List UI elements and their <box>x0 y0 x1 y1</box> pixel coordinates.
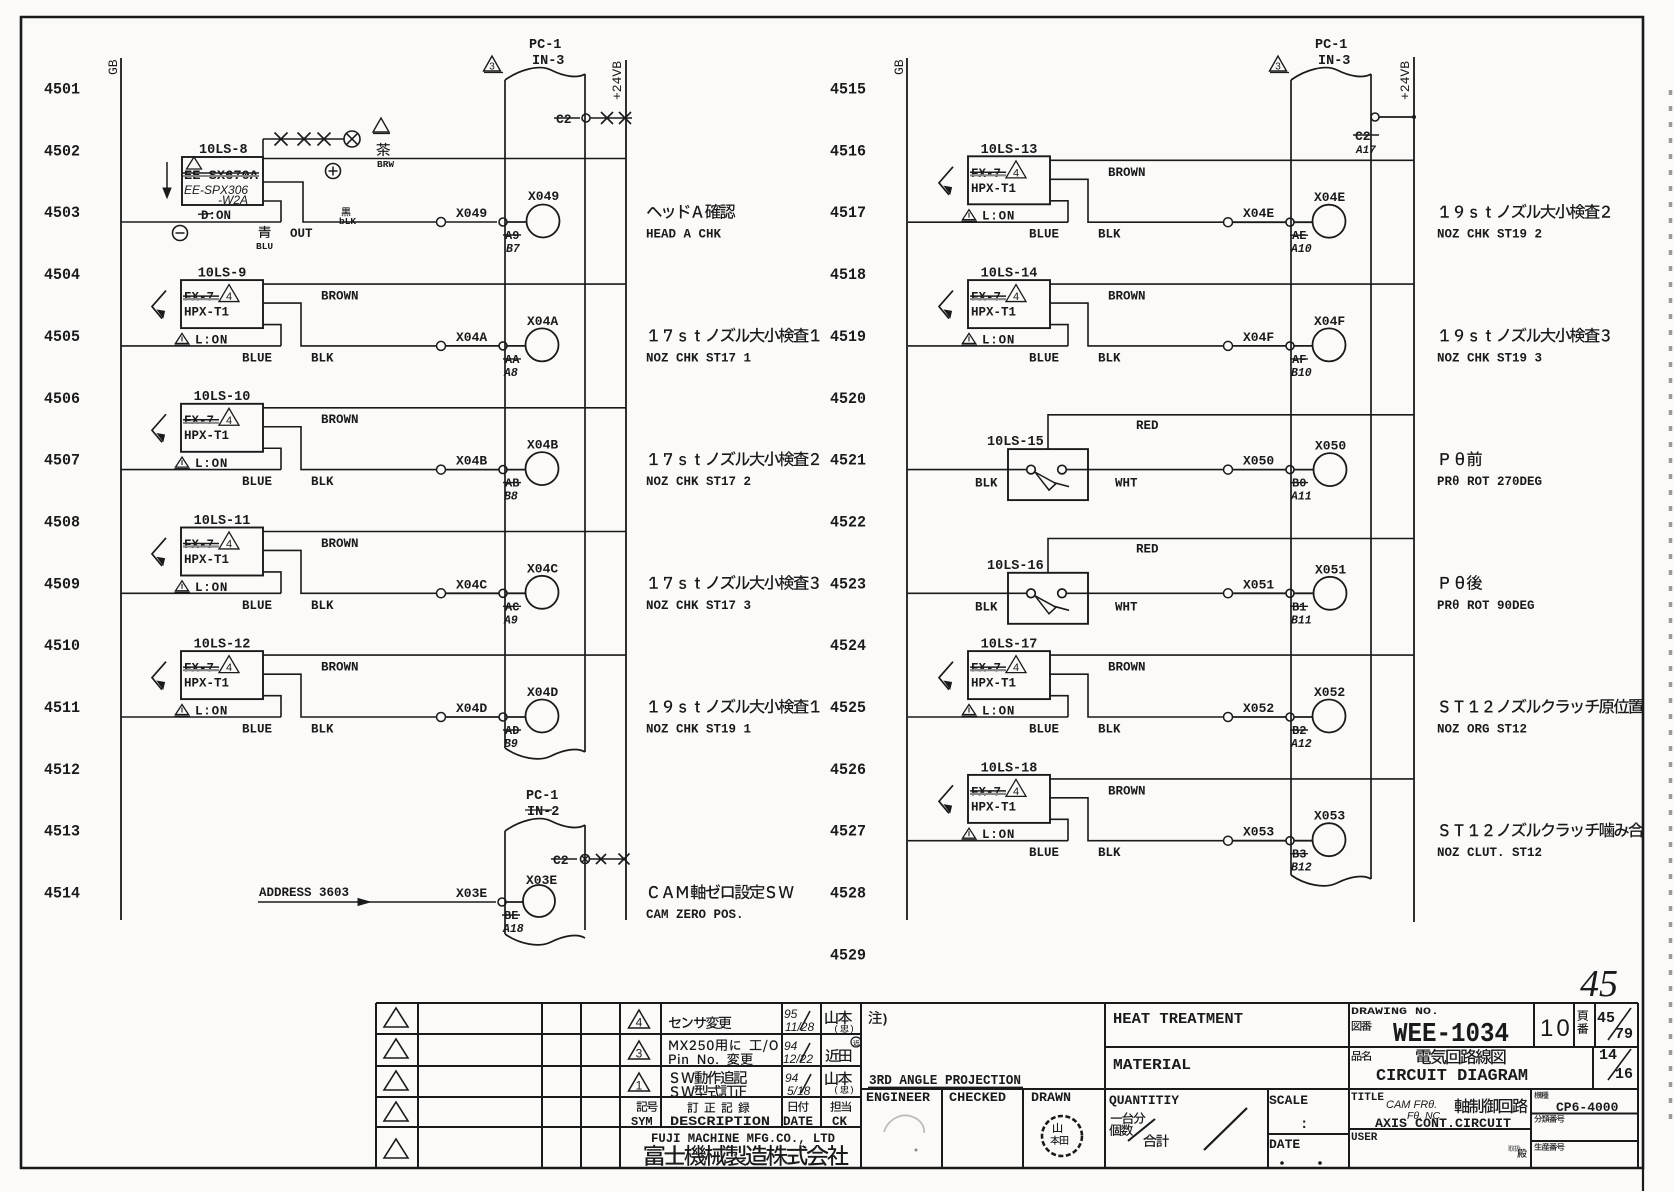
svg-text:X052: X052 <box>1243 701 1274 716</box>
10LS-12 black signal wire to X04D <box>263 674 437 736</box>
svg-text:BLK: BLK <box>1098 351 1121 365</box>
drawing number box WEE-1034 <box>1351 1006 1509 1050</box>
svg-text:X050: X050 <box>1315 439 1346 454</box>
10LS-10 black signal wire to X04B <box>263 427 437 489</box>
limit switch 10LS-16 <box>987 559 1088 624</box>
svg-text:4529: 4529 <box>830 946 866 964</box>
svg-text:14: 14 <box>1599 1047 1617 1064</box>
svg-text:4513: 4513 <box>44 823 80 841</box>
node X04C open terminal <box>437 589 446 598</box>
10LS-8 blue wire to GB bus <box>121 201 281 252</box>
company name FUJI MACHINE MFG CO LTD <box>644 1131 848 1166</box>
svg-text:94: 94 <box>784 1039 798 1053</box>
svg-text:PC-1: PC-1 <box>1315 38 1347 53</box>
svg-text:B1: B1 <box>1292 600 1306 614</box>
svg-text:X051: X051 <box>1315 562 1346 577</box>
node X052 open terminal <box>1224 713 1233 722</box>
svg-text:X053: X053 <box>1314 809 1345 824</box>
connector pin AB/B8 <box>499 466 526 504</box>
label NOZ ORG ST12 <box>1437 699 1644 737</box>
svg-text:OUT: OUT <box>290 227 313 241</box>
scale and date boxes <box>1269 1093 1322 1165</box>
10LS-8 minus terminal symbol <box>173 226 188 241</box>
svg-text:5/18: 5/18 <box>787 1084 811 1098</box>
note mark <box>868 1011 888 1027</box>
svg-text:WHT: WHT <box>1115 600 1138 614</box>
svg-text:B10: B10 <box>1291 367 1312 380</box>
svg-text:TITLE: TITLE <box>1351 1092 1384 1104</box>
10LS-8 crossed-out old wire <box>263 131 360 157</box>
terminal circle X03E <box>523 873 557 917</box>
svg-text:4502: 4502 <box>44 142 80 160</box>
connector pin AE/A10 <box>1286 218 1313 256</box>
svg-text:USER: USER <box>1351 1132 1378 1144</box>
10LS-14 blue wire to GB bus <box>908 325 1068 366</box>
wire X053 to connector pin <box>1233 825 1287 841</box>
product name box CIRCUIT DIAGRAM <box>1352 1049 1528 1085</box>
limit switch sensor 10LS-10 (HPX-T1) <box>152 390 263 471</box>
label NOZ CHK ST17 1 <box>646 327 819 365</box>
wire X04F to connector pin <box>1233 330 1287 346</box>
+24VB power line (L) <box>610 60 626 920</box>
label NOZ CHK ST19 1 <box>646 699 819 737</box>
svg-text:B11: B11 <box>1291 614 1312 627</box>
svg-text:CAM ZERO POS.: CAM ZERO POS. <box>646 908 744 922</box>
node X04B open terminal <box>437 465 446 474</box>
svg-text:HEAT TREATMENT: HEAT TREATMENT <box>1113 1011 1243 1028</box>
svg-text:4505: 4505 <box>44 328 80 346</box>
10LS-18 blue wire to GB bus <box>908 819 1068 860</box>
svg-text:SYM: SYM <box>631 1115 653 1129</box>
svg-text:4525: 4525 <box>830 699 866 717</box>
svg-text:FX-7: FX-7 <box>184 538 214 552</box>
svg-text:BLUE: BLUE <box>1029 351 1059 365</box>
svg-text:A8: A8 <box>503 367 518 380</box>
svg-text:X053: X053 <box>1243 825 1274 840</box>
svg-text:FX-7: FX-7 <box>971 291 1001 305</box>
svg-text:BROWN: BROWN <box>1108 661 1146 675</box>
10LS-12 brown wire to +24VB <box>263 655 626 675</box>
svg-text:B12: B12 <box>1291 862 1312 875</box>
svg-text:AB: AB <box>505 477 519 491</box>
revision triangles left column <box>384 1008 408 1158</box>
terminal circle X04F <box>1313 314 1346 362</box>
scan edge marks right <box>1669 90 1673 1120</box>
svg-text:45: 45 <box>1580 963 1618 1005</box>
limit switch sensor 10LS-17 (HPX-T1) <box>939 638 1050 719</box>
10LS-8 down arrow <box>163 162 171 198</box>
svg-text:4522: 4522 <box>830 514 866 532</box>
svg-text:AC: AC <box>505 600 519 614</box>
limit switch sensor 10LS-9 (HPX-T1) <box>152 267 263 348</box>
svg-text:BLK: BLK <box>1098 723 1121 737</box>
svg-text:3: 3 <box>636 1047 643 1061</box>
svg-text:HPX-T1: HPX-T1 <box>184 553 229 567</box>
10LS-14 brown wire to +24VB <box>1050 284 1414 304</box>
svg-text:NOZ CLUT. ST12: NOZ CLUT. ST12 <box>1437 846 1542 860</box>
node X04A open terminal <box>437 341 446 350</box>
machine type box CP6-4000 <box>1534 1091 1618 1115</box>
svg-text:X04F: X04F <box>1314 314 1345 329</box>
10LS-13 black signal wire to X04E <box>1050 179 1224 241</box>
svg-text:B9: B9 <box>504 738 518 751</box>
terminal circle X053 <box>1313 809 1346 857</box>
svg-text:4: 4 <box>1013 291 1019 303</box>
svg-text:PRθ ROT 270DEG: PRθ ROT 270DEG <box>1437 475 1542 489</box>
svg-text:BROWN: BROWN <box>321 413 359 427</box>
10LS-16 red wire to +24VB <box>1048 539 1414 573</box>
svg-text:RED: RED <box>1136 419 1159 433</box>
10LS-10 blue wire to GB bus <box>121 448 281 489</box>
svg-text:16: 16 <box>1615 1066 1633 1083</box>
label NOZ CHK ST17 3 <box>646 575 819 613</box>
svg-text:DATE: DATE <box>1269 1137 1300 1152</box>
svg-text:+24VB: +24VB <box>1398 61 1413 100</box>
svg-text:AXIS CONT.CIRCUIT: AXIS CONT.CIRCUIT <box>1375 1116 1511 1131</box>
svg-text:X04A: X04A <box>456 330 487 345</box>
svg-text:CK: CK <box>832 1115 848 1129</box>
svg-text:A9: A9 <box>505 229 519 243</box>
svg-text:QUANTITIY: QUANTITIY <box>1109 1093 1179 1108</box>
svg-text:C2: C2 <box>553 853 569 868</box>
connector pin B0/A11 <box>1286 466 1313 504</box>
wire X049 to connector pin <box>446 206 498 222</box>
svg-text:4527: 4527 <box>830 823 866 841</box>
svg-text:4514: 4514 <box>44 885 80 903</box>
10LS-14 black signal wire to X04F <box>1050 303 1224 365</box>
+24VB power line (R) <box>1398 57 1414 922</box>
svg-text:A17: A17 <box>1355 145 1376 157</box>
quantity box <box>1109 1093 1247 1150</box>
10LS-9 brown wire to +24VB <box>263 284 626 304</box>
svg-text:X049: X049 <box>456 206 487 221</box>
wire X04E to connector pin <box>1233 206 1287 222</box>
svg-text:D:ON: D:ON <box>201 209 231 223</box>
svg-text:BLUE: BLUE <box>1029 228 1059 242</box>
svg-text:4507: 4507 <box>44 452 80 470</box>
svg-text:10LS-12: 10LS-12 <box>194 638 251 653</box>
terminal circle X04B <box>526 438 559 486</box>
svg-text:X050: X050 <box>1243 454 1274 469</box>
svg-text:BROWN: BROWN <box>1108 290 1146 304</box>
svg-text:10LS-11: 10LS-11 <box>194 514 251 529</box>
label NOZ CHK ST19 3 <box>1437 327 1610 365</box>
10LS-15 black wire to GB bus <box>907 470 1027 491</box>
10LS-17 blue wire to GB bus <box>908 696 1068 737</box>
wire X04B to connector pin <box>446 454 500 470</box>
svg-text:4526: 4526 <box>830 761 866 779</box>
svg-text:BROWN: BROWN <box>321 661 359 675</box>
svg-text:10LS-17: 10LS-17 <box>981 638 1038 653</box>
svg-text:DRAWING NO.: DRAWING NO. <box>1351 1006 1439 1018</box>
svg-text:4517: 4517 <box>830 204 866 222</box>
sheet number boxes <box>1540 1008 1633 1083</box>
10LS-8 plus symbol <box>326 164 341 179</box>
10LS-18 brown wire to +24VB <box>1050 779 1414 799</box>
svg-text:45: 45 <box>1597 1010 1615 1027</box>
svg-text:BROWN: BROWN <box>1108 784 1146 798</box>
svg-text:C2: C2 <box>1355 129 1371 144</box>
svg-text:X04C: X04C <box>456 577 487 592</box>
svg-text:BLK: BLK <box>311 475 334 489</box>
wire X052 to connector pin <box>1233 701 1287 717</box>
svg-text:FX-7: FX-7 <box>184 662 214 676</box>
wire X051 to connector pin <box>1233 577 1287 593</box>
svg-text:4: 4 <box>226 539 232 551</box>
svg-text:4: 4 <box>636 1016 643 1030</box>
svg-text:HPX-T1: HPX-T1 <box>971 800 1016 814</box>
engineer faint stamp <box>884 1115 924 1151</box>
svg-text:NOZ CHK ST17 2: NOZ CHK ST17 2 <box>646 475 751 489</box>
title block frame <box>376 1003 1638 1168</box>
connector pin B3/B12 <box>1286 837 1313 875</box>
svg-text:X04E: X04E <box>1243 206 1274 221</box>
10LS-15 white wire to X050 <box>1067 470 1224 491</box>
svg-text:4503: 4503 <box>44 204 80 222</box>
svg-text:95: 95 <box>784 1007 798 1021</box>
svg-text:4510: 4510 <box>44 637 80 655</box>
net C2 junction wire (R) <box>1353 113 1416 157</box>
svg-text:10LS-8: 10LS-8 <box>199 143 248 158</box>
svg-text:X04B: X04B <box>456 454 487 469</box>
10LS-11 black signal wire to X04C <box>263 550 437 612</box>
svg-text:-W2A: -W2A <box>218 193 248 207</box>
svg-text:10: 10 <box>1540 1015 1573 1042</box>
10LS-18 black signal wire to X053 <box>1050 798 1224 860</box>
terminal circle X04C <box>526 561 559 609</box>
terminal circle X04D <box>526 685 559 733</box>
svg-text:4: 4 <box>1013 167 1019 179</box>
limit switch sensor 10LS-11 (HPX-T1) <box>152 514 263 595</box>
node X04F open terminal <box>1224 341 1233 350</box>
connector pin AD/B9 <box>499 713 526 751</box>
10LS-8 brown wire to +24VB <box>263 143 626 170</box>
svg-text:BLK: BLK <box>311 723 334 737</box>
terminal circle X04A <box>526 314 559 362</box>
svg-text:HPX-T1: HPX-T1 <box>971 306 1016 320</box>
10LS-15 red wire to +24VB <box>1048 415 1414 449</box>
revision table header <box>631 1101 851 1129</box>
svg-text:4509: 4509 <box>44 575 80 593</box>
node X04E open terminal <box>1224 218 1233 227</box>
connector PC-1 IN-2 <box>505 789 585 945</box>
svg-text:HPX-T1: HPX-T1 <box>971 677 1016 691</box>
ground bus GB (L) <box>106 58 121 920</box>
10LS-16 white wire to X051 <box>1067 593 1224 614</box>
svg-text:FX-7: FX-7 <box>184 291 214 305</box>
svg-text:X04F: X04F <box>1243 330 1274 345</box>
svg-text:NOZ CHK ST17 3: NOZ CHK ST17 3 <box>646 599 751 613</box>
svg-text:10LS-16: 10LS-16 <box>987 559 1044 574</box>
svg-text:A18: A18 <box>502 923 524 936</box>
svg-text:94: 94 <box>785 1071 799 1085</box>
svg-text:4519: 4519 <box>830 328 866 346</box>
svg-text:IN-3: IN-3 <box>532 54 564 69</box>
node X049 open terminal <box>437 218 446 227</box>
svg-text:C2: C2 <box>556 112 572 127</box>
svg-text:MATERIAL: MATERIAL <box>1113 1057 1191 1074</box>
svg-text:FX-7: FX-7 <box>971 662 1001 676</box>
svg-text:A10: A10 <box>1290 243 1312 256</box>
revision mark triangle-1 near 10LS-8 <box>373 118 390 134</box>
svg-text:BLK: BLK <box>311 599 334 613</box>
svg-text:GB: GB <box>106 59 121 75</box>
revision table entries <box>669 1007 861 1098</box>
svg-text:BLUE: BLUE <box>242 599 272 613</box>
line number labels 4515-4529 <box>830 81 866 965</box>
svg-text:3: 3 <box>1275 62 1281 73</box>
svg-text:CHECKED: CHECKED <box>949 1090 1006 1105</box>
10LS-9 black signal wire to X04A <box>263 303 437 365</box>
10LS-11 brown wire to +24VB <box>263 532 626 552</box>
svg-text:A12: A12 <box>1290 738 1312 751</box>
svg-text:NOZ CHK ST19 2: NOZ CHK ST19 2 <box>1437 228 1542 242</box>
svg-text:BLUE: BLUE <box>242 723 272 737</box>
10LS-10 brown wire to +24VB <box>263 408 626 427</box>
10LS-17 brown wire to +24VB <box>1050 655 1414 675</box>
svg-text:4506: 4506 <box>44 390 80 408</box>
wire X04C to connector pin <box>446 577 500 593</box>
node X050 open terminal <box>1224 465 1233 474</box>
svg-text:ADDRESS 3603: ADDRESS 3603 <box>259 886 349 900</box>
limit switch 10LS-15 <box>987 435 1088 500</box>
wire X04D to connector pin <box>446 701 500 717</box>
heat treatment / material boxes <box>1113 1011 1243 1074</box>
svg-text:WHT: WHT <box>1115 477 1138 491</box>
3RD ANGLE PROJECTION label <box>868 1074 1023 1089</box>
classification number box <box>1534 1115 1564 1123</box>
wire X04A to connector pin <box>446 330 500 346</box>
wire ADDRESS 3603 to X03E <box>258 886 496 906</box>
svg-text:BLK: BLK <box>975 477 998 491</box>
node X04D open terminal <box>437 713 446 722</box>
svg-text:12/22: 12/22 <box>783 1052 813 1066</box>
title box CAM FR AXIS CONT CIRCUIT <box>1351 1092 1528 1131</box>
svg-text:10LS-13: 10LS-13 <box>981 143 1038 158</box>
svg-text:IN-3: IN-3 <box>1318 54 1350 69</box>
svg-text:4518: 4518 <box>830 266 866 284</box>
limit switch sensor 10LS-14 (HPX-T1) <box>939 267 1050 348</box>
svg-text:A9: A9 <box>503 614 518 627</box>
svg-text:AE: AE <box>1292 229 1306 243</box>
10LS-13 brown wire to +24VB <box>1050 160 1414 180</box>
svg-text:X04B: X04B <box>527 438 558 453</box>
10LS-17 black signal wire to X052 <box>1050 674 1224 736</box>
net C2 junction wire (L) <box>554 112 632 127</box>
svg-text:BLU: BLU <box>256 241 273 252</box>
svg-text:4: 4 <box>1013 662 1019 674</box>
svg-text:BROWN: BROWN <box>321 537 359 551</box>
svg-text:10LS-15: 10LS-15 <box>987 435 1044 450</box>
svg-text:BE: BE <box>504 909 518 923</box>
svg-text:4524: 4524 <box>830 637 866 655</box>
svg-text:ENGINEER: ENGINEER <box>866 1090 930 1105</box>
user box <box>1351 1132 1527 1158</box>
svg-text:1: 1 <box>636 1079 643 1093</box>
connector PC-1 IN-3 (L) <box>505 38 585 759</box>
svg-text:4523: 4523 <box>830 575 866 593</box>
svg-text::: : <box>1300 1117 1308 1133</box>
svg-text:): ) <box>881 1012 889 1027</box>
svg-text:10LS-18: 10LS-18 <box>981 761 1038 776</box>
terminal circle X04E <box>1313 190 1346 238</box>
svg-text:CIRCUIT DIAGRAM: CIRCUIT DIAGRAM <box>1376 1066 1528 1085</box>
10LS-8 output black wire to X049 <box>263 182 437 241</box>
svg-text:BLK: BLK <box>1098 228 1121 242</box>
production number box <box>1534 1143 1564 1151</box>
svg-text:79: 79 <box>1615 1026 1633 1043</box>
svg-text:X03E: X03E <box>526 873 557 888</box>
connector pin AA/A8 <box>499 342 526 380</box>
svg-text:4: 4 <box>226 291 232 303</box>
svg-text:BLK: BLK <box>1098 846 1121 860</box>
connector pin AF/B10 <box>1286 342 1313 380</box>
svg-text:PC-1: PC-1 <box>526 789 558 804</box>
connector PC-1 IN-3 (R) <box>1291 38 1371 886</box>
svg-text:X03E: X03E <box>456 886 487 901</box>
svg-text:X049: X049 <box>528 189 559 204</box>
connector pin AC/A9 <box>499 589 526 627</box>
svg-text:X052: X052 <box>1314 685 1345 700</box>
svg-text:4504: 4504 <box>44 266 80 284</box>
svg-text:AA: AA <box>505 353 520 367</box>
svg-text:X04E: X04E <box>1314 190 1345 205</box>
svg-text:bLK: bLK <box>339 216 356 227</box>
terminal circle X051 <box>1314 562 1347 610</box>
svg-text:AD: AD <box>505 724 519 738</box>
label NOZ CLUT. ST12 <box>1437 822 1644 860</box>
svg-text:+24VB: +24VB <box>610 61 625 100</box>
terminal circle X052 <box>1313 685 1346 733</box>
svg-text:4501: 4501 <box>44 81 80 99</box>
svg-text:BROWN: BROWN <box>1108 166 1146 180</box>
svg-text:4511: 4511 <box>44 699 80 717</box>
connector pin B1/B11 <box>1286 589 1313 627</box>
svg-text:BLUE: BLUE <box>1029 723 1059 737</box>
svg-text:GB: GB <box>892 59 907 75</box>
svg-text:X04A: X04A <box>527 314 558 329</box>
svg-text:3: 3 <box>489 62 495 73</box>
svg-text:A11: A11 <box>1290 491 1312 504</box>
svg-text:FX-7: FX-7 <box>184 414 214 428</box>
svg-text:HEAD A CHK: HEAD A CHK <box>646 228 722 242</box>
svg-text:HPX-T1: HPX-T1 <box>971 182 1016 196</box>
svg-text:BLUE: BLUE <box>242 475 272 489</box>
label PRθ ROT 270DEG <box>1437 451 1542 489</box>
svg-text:IN-2: IN-2 <box>527 805 559 820</box>
svg-text:4515: 4515 <box>830 81 866 99</box>
svg-text:NOZ CHK ST17 1: NOZ CHK ST17 1 <box>646 351 751 365</box>
svg-text:BLK: BLK <box>311 351 334 365</box>
svg-text:B3: B3 <box>1292 848 1306 862</box>
svg-text:10LS-14: 10LS-14 <box>981 267 1038 282</box>
svg-text:HPX-T1: HPX-T1 <box>184 306 229 320</box>
connector pin BE/A18 <box>498 898 524 936</box>
photo sensor 10LS-8 (EE-SPX306-W2A) <box>182 143 263 223</box>
10LS-16 black wire to GB bus <box>907 593 1027 614</box>
10LS-11 blue wire to GB bus <box>121 572 281 613</box>
node X051 open terminal <box>1224 589 1233 598</box>
svg-text:4: 4 <box>226 415 232 427</box>
svg-text:SCALE: SCALE <box>1269 1093 1308 1108</box>
svg-text:4512: 4512 <box>44 761 80 779</box>
limit switch sensor 10LS-12 (HPX-T1) <box>152 638 263 719</box>
label NOZ CHK ST17 2 <box>646 451 819 489</box>
label PRθ ROT 90DEG <box>1437 575 1535 613</box>
limit switch sensor 10LS-18 (HPX-T1) <box>939 761 1050 842</box>
svg-text:B8: B8 <box>504 491 518 504</box>
svg-text:DRAWN: DRAWN <box>1031 1090 1071 1105</box>
